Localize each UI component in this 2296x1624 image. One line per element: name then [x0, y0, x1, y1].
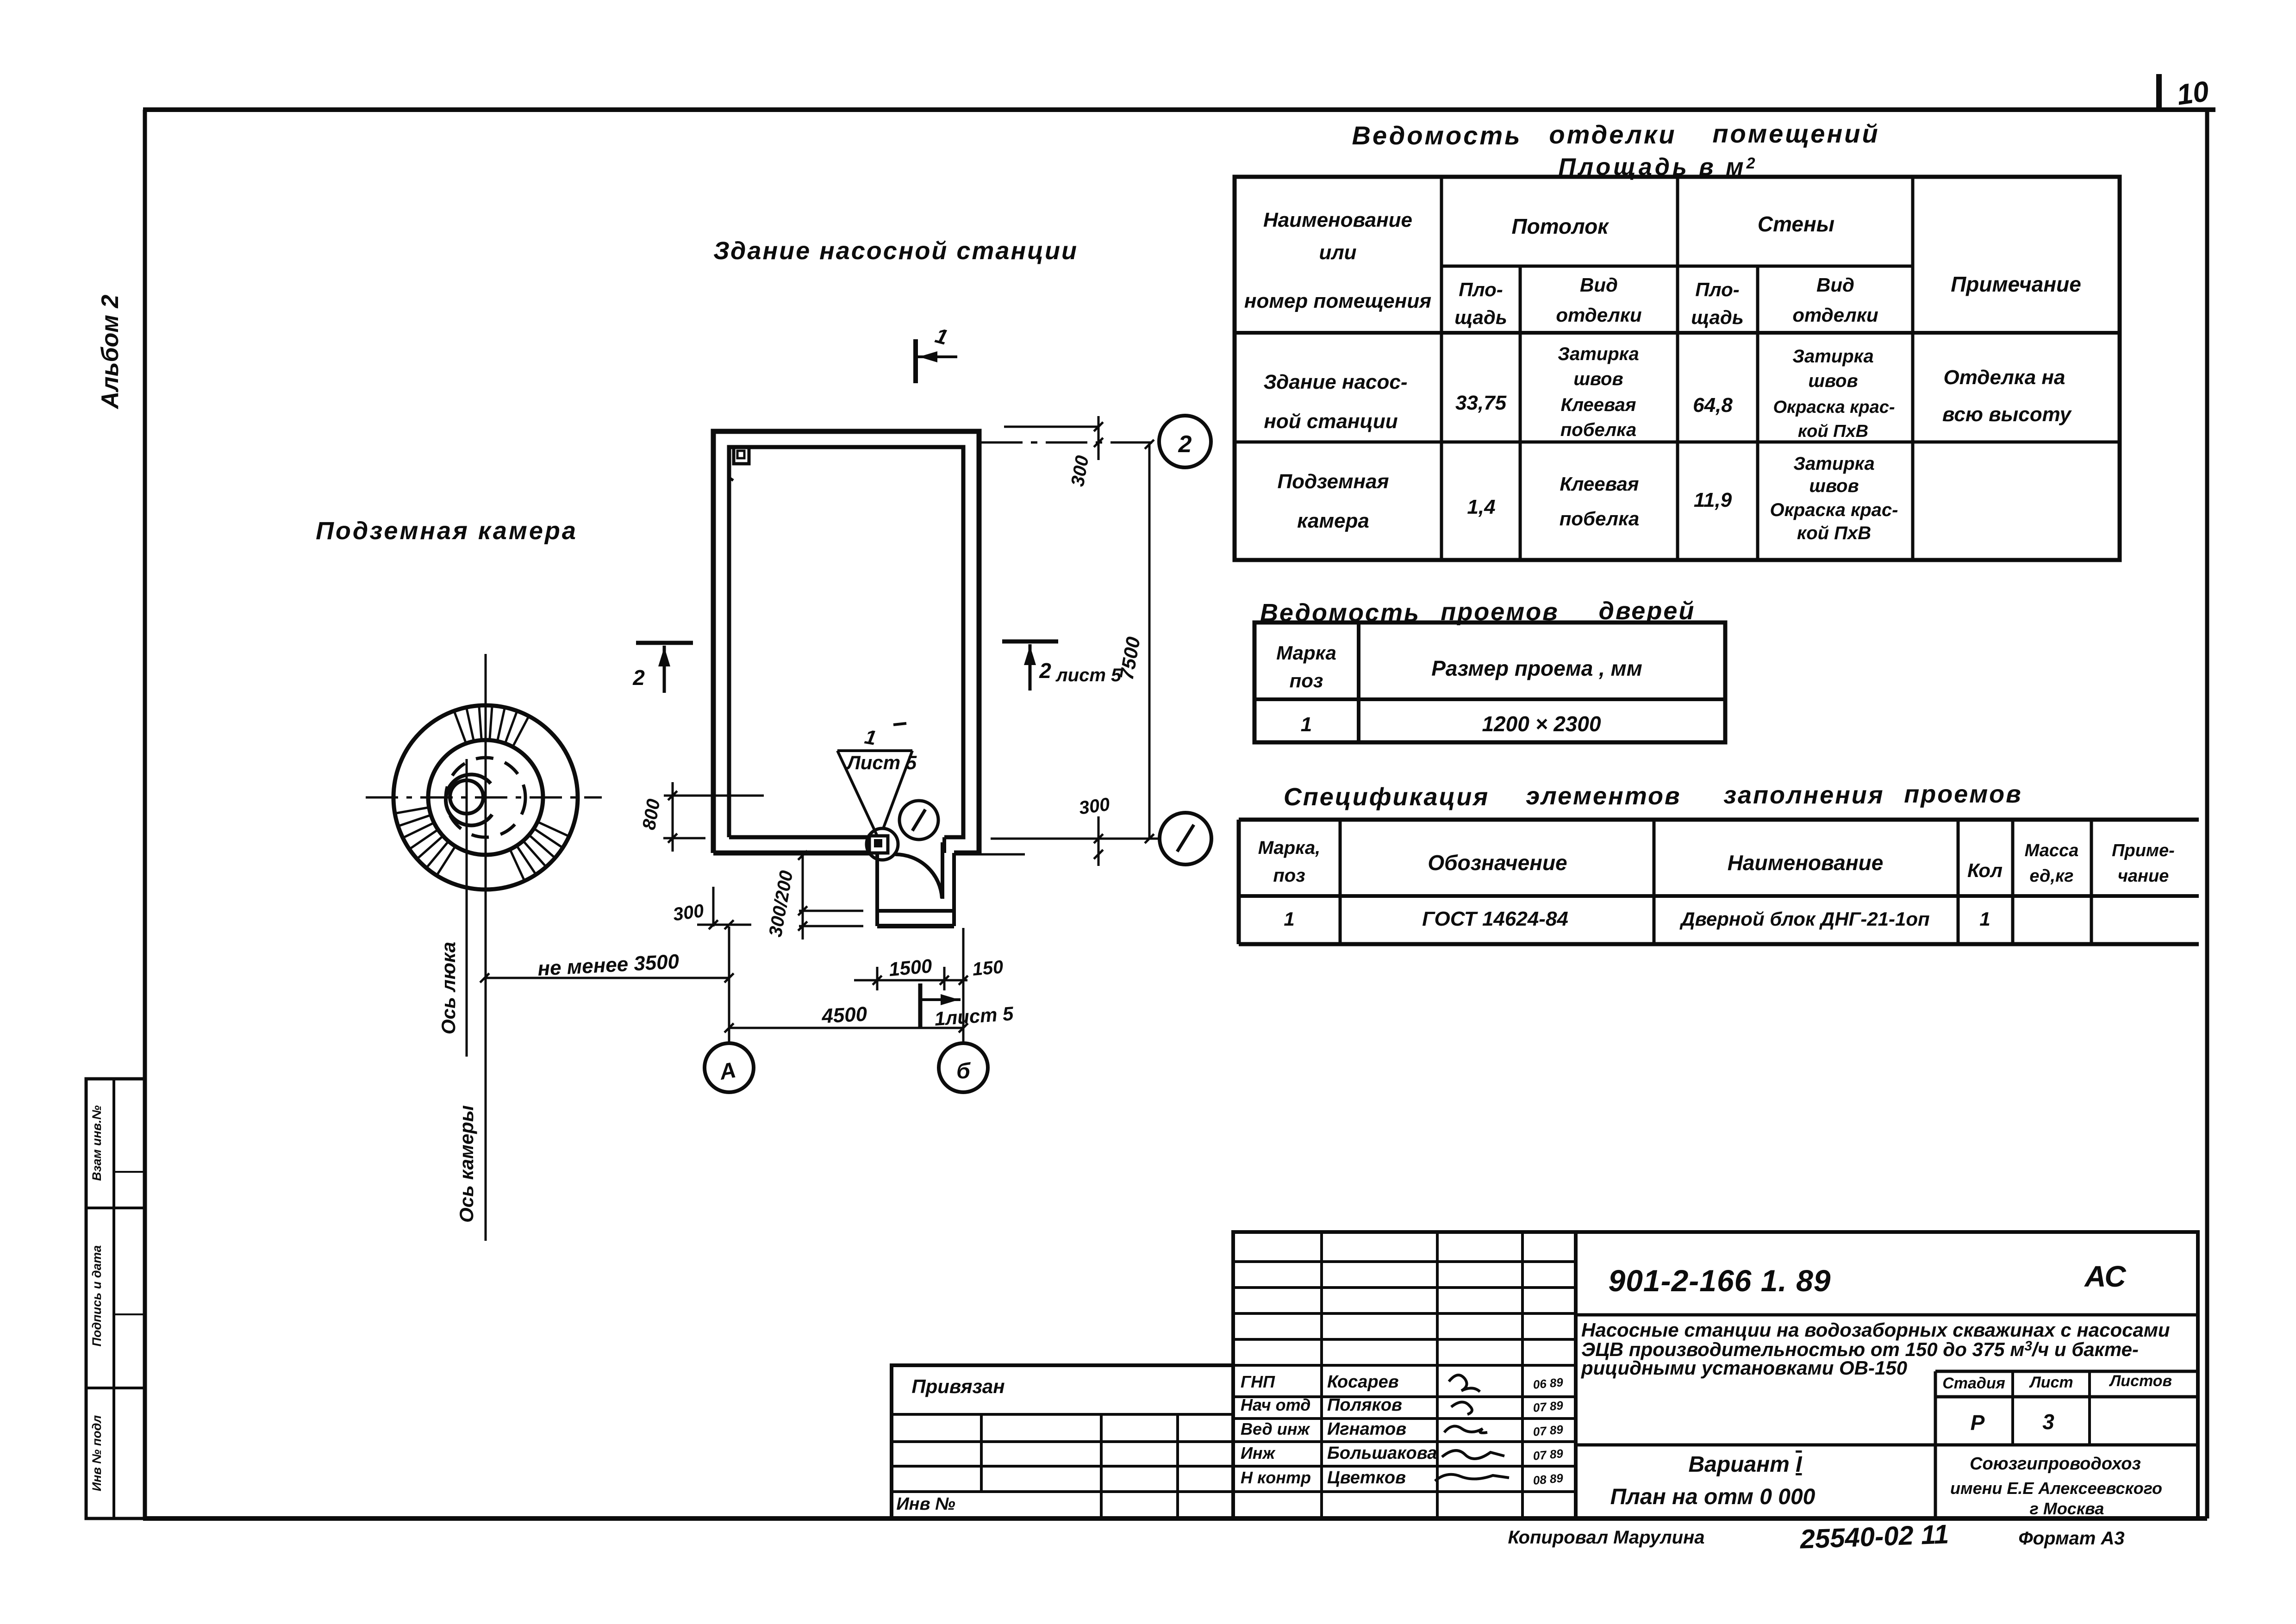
section mark 1 top — [913, 339, 918, 383]
svg-text:1: 1 — [1979, 908, 1990, 930]
axis circle A — [728, 978, 730, 1042]
svg-text:лист 5: лист 5 — [1055, 665, 1122, 685]
chamber inner arc — [446, 774, 492, 825]
svg-text:Окраска крас-: Окраска крас- — [1770, 500, 1898, 520]
svg-text:Подземная: Подземная — [1278, 470, 1389, 493]
chamber outer circle — [393, 705, 578, 890]
svg-text:или: или — [1319, 241, 1356, 264]
svg-text:отделки: отделки — [1556, 304, 1641, 326]
svg-text:элементов: элементов — [1526, 782, 1681, 810]
svg-text:08 89: 08 89 — [1532, 1471, 1564, 1487]
svg-text:901-2-166 1. 89: 901-2-166 1. 89 — [1608, 1263, 1831, 1298]
door swing arc — [895, 854, 942, 898]
axis line 2 — [981, 442, 1158, 444]
svg-text:Ось люка: Ось люка — [437, 942, 459, 1034]
svg-text:Стадия: Стадия — [1942, 1375, 2005, 1392]
svg-text:1,4: 1,4 — [1467, 496, 1495, 518]
svg-text:Ведомость: Ведомость — [1352, 121, 1522, 150]
svg-text:Н контр: Н контр — [1241, 1468, 1311, 1487]
svg-text:побелка: побелка — [1560, 508, 1639, 529]
axis circle B — [962, 1028, 965, 1042]
svg-text:помещений: помещений — [1712, 119, 1879, 148]
svg-text:ГНП: ГНП — [1241, 1372, 1275, 1391]
svg-text:1200 × 2300: 1200 × 2300 — [1482, 712, 1601, 736]
svg-text:Размер проема , мм: Размер проема , мм — [1431, 656, 1642, 680]
svg-text:1500: 1500 — [888, 955, 933, 980]
chamber dashed circle — [446, 758, 525, 837]
svg-text:300: 300 — [672, 901, 705, 925]
dim 300 top-right — [1004, 426, 1098, 428]
marka circle 1 at door — [899, 801, 938, 840]
svg-text:Кол: Кол — [1967, 859, 2003, 881]
svg-text:поз: поз — [1290, 670, 1323, 691]
svg-text:2: 2 — [1178, 431, 1192, 458]
svg-text:150: 150 — [972, 957, 1004, 980]
svg-text:4500: 4500 — [821, 1002, 868, 1027]
dim 1500 — [876, 967, 879, 990]
svg-text:побелка: побелка — [1560, 420, 1636, 440]
svg-text:Союзгипроводохоз: Союзгипроводохоз — [1970, 1454, 2141, 1474]
svg-text:Косарев: Косарев — [1327, 1372, 1399, 1392]
svg-text:Игнатов: Игнатов — [1327, 1419, 1406, 1439]
door callout flag 1/list5 — [837, 749, 912, 752]
svg-text:рицидными установками ОВ-150: рицидными установками ОВ-150 — [1581, 1357, 1907, 1379]
building inner wall line — [729, 447, 963, 837]
svg-text:отделки: отделки — [1792, 304, 1878, 326]
table1 borders — [1235, 177, 2120, 560]
svg-text:Масса: Масса — [2025, 841, 2079, 860]
door leaf — [941, 842, 944, 899]
svg-text:33,75: 33,75 — [1455, 392, 1507, 414]
svg-text:Клеевая: Клеевая — [1560, 473, 1639, 495]
svg-text:ной станции: ной станции — [1264, 410, 1398, 433]
svg-text:Инв № подл: Инв № подл — [90, 1415, 104, 1492]
svg-text:Насосные станции на водозабор: Насосные станции на водозаборных скважин… — [1581, 1319, 2170, 1341]
svg-text:АС: АС — [2084, 1260, 2126, 1293]
svg-text:Копировал Марулина: Копировал Марулина — [1508, 1527, 1704, 1548]
svg-text:имени Е.Е Алексеевского: имени Е.Е Алексеевского — [1950, 1479, 2162, 1498]
svg-text:Отделка на: Отделка на — [1944, 366, 2065, 389]
svg-text:Спецификация: Спецификация — [1284, 783, 1489, 811]
svg-text:Инж: Инж — [1241, 1444, 1276, 1462]
svg-text:швов: швов — [1573, 369, 1623, 389]
svg-text:1: 1 — [1301, 713, 1312, 736]
svg-text:Наименование: Наименование — [1263, 209, 1412, 231]
axis circle 2 — [1159, 416, 1211, 467]
svg-text:ед,кг: ед,кг — [2029, 866, 2073, 886]
door hinge circle — [867, 828, 898, 860]
dim ne menee 3500 — [485, 977, 729, 979]
title block — [1233, 1232, 1576, 1518]
svg-text:Большакова: Большакова — [1327, 1444, 1437, 1463]
section mark 2 left — [636, 641, 693, 645]
chamber ring hatching — [513, 717, 528, 746]
svg-text:Вариант I: Вариант I — [1688, 1452, 1803, 1477]
dim 300 bottom-left — [712, 887, 715, 927]
svg-text:проемов: проемов — [1904, 780, 2022, 808]
svg-text:Потолок: Потолок — [1512, 214, 1610, 238]
svg-text:Лист: Лист — [2028, 1374, 2073, 1391]
svg-text:Здание насос-: Здание насос- — [1263, 371, 1407, 393]
axis of manhole line — [466, 759, 468, 1057]
svg-text:25540-02 11: 25540-02 11 — [1799, 1519, 1950, 1554]
dim 4500 — [729, 1027, 963, 1029]
svg-text:Поляков: Поляков — [1327, 1395, 1402, 1415]
svg-text:ГОСТ 14624-84: ГОСТ 14624-84 — [1422, 908, 1568, 930]
svg-text:отделки: отделки — [1549, 120, 1676, 149]
svg-text:заполнения: заполнения — [1723, 781, 1884, 809]
axis circle 1 — [1160, 813, 1211, 865]
dim 300 bottom-right — [981, 853, 1025, 856]
signature scribbles — [1449, 1375, 1480, 1392]
svg-text:Марка,: Марка, — [1258, 838, 1321, 858]
chamber centerline horizontal — [366, 796, 602, 799]
svg-text:10: 10 — [2175, 75, 2211, 112]
svg-text:07 89: 07 89 — [1532, 1398, 1564, 1415]
svg-text:Вид: Вид — [1580, 274, 1618, 296]
svg-text:Окраска крас-: Окраска крас- — [1773, 398, 1895, 417]
svg-text:План на отм 0 000: План на отм 0 000 — [1610, 1485, 1816, 1509]
section mark 1 bottom (1 list 5) — [918, 983, 923, 1028]
svg-text:швов: швов — [1808, 371, 1858, 391]
svg-text:всю высоту: всю высоту — [1942, 403, 2072, 426]
svg-text:Наименование: Наименование — [1728, 851, 1884, 875]
dim 800 left — [664, 795, 764, 797]
svg-text:щадь: щадь — [1691, 306, 1744, 328]
svg-text:Затирка: Затирка — [1793, 454, 1874, 474]
B axis extension line — [962, 928, 965, 1043]
svg-text:Листов: Листов — [2109, 1372, 2172, 1390]
svg-text:1: 1 — [1284, 908, 1294, 930]
small dash above flag — [893, 723, 906, 725]
svg-text:Лист 5: Лист 5 — [846, 752, 917, 773]
svg-text:Обозначение: Обозначение — [1428, 851, 1567, 875]
svg-text:Цветков: Цветков — [1327, 1468, 1406, 1487]
svg-text:Примечание: Примечание — [1951, 272, 2081, 296]
svg-text:Взам инв.№: Взам инв.№ — [90, 1105, 104, 1181]
svg-text:Альбом 2: Альбом 2 — [97, 295, 124, 410]
door opening right jamb — [942, 837, 946, 853]
floor drain square (top-left corner) — [734, 447, 749, 464]
svg-text:Ось камеры: Ось камеры — [455, 1105, 477, 1223]
chamber centerline vertical (axis of chamber) — [485, 654, 487, 1241]
svg-text:Вид: Вид — [1816, 274, 1854, 296]
dim 7500 right — [1148, 444, 1151, 839]
svg-text:Приме-: Приме- — [2112, 841, 2175, 860]
svg-text:Привязан: Привязан — [911, 1375, 1004, 1397]
svg-text:б: б — [956, 1059, 971, 1083]
sheet frame — [143, 107, 2215, 112]
svg-text:64,8: 64,8 — [1693, 394, 1733, 417]
svg-text:Здание насосной станции: Здание насосной станции — [713, 237, 1078, 265]
svg-text:Подпись и дата: Подпись и дата — [90, 1245, 104, 1347]
section mark 2 right (2 list 5) — [1002, 640, 1058, 644]
door opening left jamb block — [869, 836, 888, 853]
svg-text:Пло-: Пло- — [1695, 279, 1739, 300]
dim line vert from A axis — [728, 927, 730, 978]
svg-text:Клеевая: Клеевая — [1561, 395, 1636, 415]
svg-text:Дверной блок ДНГ-21-1оп: Дверной блок ДНГ-21-1оп — [1679, 908, 1929, 930]
svg-text:300: 300 — [1078, 794, 1111, 819]
svg-text:Затирка: Затирка — [1558, 344, 1639, 364]
svg-text:Стены: Стены — [1758, 212, 1834, 236]
hatch (manhole) small circle — [450, 780, 483, 814]
svg-text:кой ПхВ: кой ПхВ — [1797, 523, 1871, 543]
svg-text:Затирка: Затирка — [1792, 346, 1873, 367]
svg-text:Нач отд: Нач отд — [1241, 1395, 1310, 1414]
svg-text:Р: Р — [1971, 1411, 1985, 1435]
svg-text:Формат А3: Формат А3 — [2018, 1528, 2124, 1549]
building outer wall line — [713, 431, 979, 853]
svg-text:07 89: 07 89 — [1532, 1446, 1564, 1463]
left stamp boxes — [86, 1079, 145, 1518]
svg-text:чание: чание — [2118, 866, 2169, 886]
svg-text:11,9: 11,9 — [1694, 489, 1732, 511]
page number 10 — [2156, 74, 2162, 110]
svg-text:кой ПхВ: кой ПхВ — [1798, 422, 1868, 441]
svg-text:2: 2 — [1039, 659, 1051, 683]
dim 300/200 porch — [802, 855, 804, 940]
svg-text:Пло-: Пло- — [1459, 279, 1503, 300]
svg-text:2: 2 — [632, 666, 645, 690]
svg-text:Инв №: Инв № — [896, 1494, 955, 1514]
svg-text:поз: поз — [1273, 865, 1305, 886]
svg-text:Вед инж: Вед инж — [1241, 1419, 1310, 1438]
svg-text:камера: камера — [1297, 510, 1369, 532]
svg-text:Подземная камера: Подземная камера — [316, 517, 578, 545]
svg-text:3: 3 — [2042, 1410, 2054, 1434]
porch below door — [875, 853, 879, 926]
chamber inner ring circle — [428, 740, 543, 855]
svg-text:г Москва: г Москва — [2030, 1499, 2104, 1518]
svg-text:швов: швов — [1809, 476, 1859, 496]
svg-text:07 89: 07 89 — [1532, 1422, 1564, 1439]
svg-text:щадь: щадь — [1454, 306, 1507, 328]
svg-text:номер помещения: номер помещения — [1244, 290, 1431, 312]
svg-text:Марка: Марка — [1276, 642, 1336, 664]
axis line 1 — [991, 838, 1159, 840]
svg-text:06 89: 06 89 — [1532, 1375, 1564, 1392]
